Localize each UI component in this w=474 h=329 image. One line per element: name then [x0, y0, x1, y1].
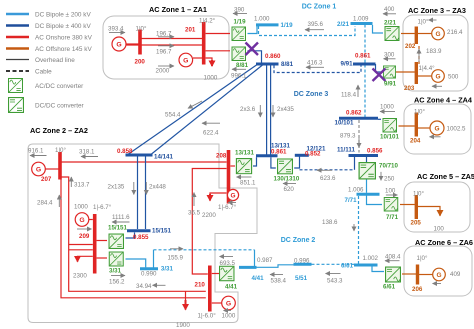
- svg-text:400: 400: [384, 6, 395, 13]
- svg-text:1|0°: 1|0°: [413, 191, 424, 198]
- svg-text:1002.5: 1002.5: [447, 126, 466, 133]
- svg-text:G: G: [435, 74, 440, 81]
- svg-text:2300: 2300: [73, 273, 87, 280]
- svg-text:0.852: 0.852: [305, 150, 321, 157]
- svg-text:G: G: [116, 41, 121, 48]
- svg-text:AC Zone 2 – ZA2: AC Zone 2 – ZA2: [30, 126, 88, 135]
- svg-text:118.4: 118.4: [341, 92, 357, 99]
- svg-text:206: 206: [412, 286, 423, 293]
- svg-text:1000: 1000: [380, 104, 394, 111]
- svg-text:204: 204: [410, 138, 421, 145]
- svg-text:1|-6.7°: 1|-6.7°: [93, 204, 112, 211]
- svg-text:2000: 2000: [156, 68, 170, 75]
- svg-text:201: 201: [185, 27, 196, 34]
- svg-text:1111.6: 1111.6: [112, 214, 130, 221]
- svg-text:100: 100: [385, 188, 396, 195]
- svg-text:2200: 2200: [202, 212, 216, 219]
- svg-text:3/31: 3/31: [161, 266, 174, 273]
- svg-text:7/71: 7/71: [345, 197, 358, 204]
- svg-text:10/101: 10/101: [335, 120, 354, 127]
- svg-text:1|0°: 1|0°: [414, 109, 425, 116]
- svg-text:996.1: 996.1: [231, 73, 247, 80]
- svg-text:0.862: 0.862: [346, 110, 362, 117]
- svg-text:208: 208: [216, 152, 227, 159]
- svg-text:DC Zone 3: DC Zone 3: [294, 91, 329, 98]
- svg-text:8/81: 8/81: [281, 61, 294, 68]
- svg-text:1|0°: 1|0°: [418, 19, 429, 26]
- svg-text:DC Zone 1: DC Zone 1: [302, 4, 337, 11]
- svg-text:1000: 1000: [222, 313, 236, 320]
- svg-text:284.4: 284.4: [37, 200, 53, 207]
- svg-text:196.7: 196.7: [156, 49, 172, 56]
- svg-text:9/91: 9/91: [341, 61, 354, 68]
- svg-text:2/21: 2/21: [337, 21, 350, 28]
- svg-text:205: 205: [411, 220, 422, 227]
- svg-text:916.1: 916.1: [28, 148, 44, 155]
- svg-text:1|-6.7°: 1|-6.7°: [218, 204, 237, 211]
- svg-text:DC Bipole ± 200 kV: DC Bipole ± 200 kV: [35, 12, 91, 19]
- svg-text:1|0°: 1|0°: [417, 255, 428, 262]
- svg-text:0.861: 0.861: [271, 148, 287, 155]
- svg-text:14/141: 14/141: [154, 154, 173, 161]
- svg-text:15/151: 15/151: [152, 228, 171, 235]
- svg-text:8/81: 8/81: [236, 62, 249, 69]
- svg-text:390: 390: [234, 7, 245, 14]
- svg-text:693.5: 693.5: [220, 260, 236, 267]
- svg-text:9/91: 9/91: [384, 81, 397, 88]
- svg-text:0.990: 0.990: [141, 271, 157, 278]
- svg-text:AC Zone 5 – ZA5: AC Zone 5 – ZA5: [417, 172, 474, 181]
- svg-text:313.7: 313.7: [74, 182, 90, 189]
- svg-text:879.3: 879.3: [340, 133, 356, 140]
- svg-text:1|0°: 1|0°: [55, 147, 66, 154]
- svg-text:6/61: 6/61: [341, 263, 354, 270]
- svg-text:318.1: 318.1: [79, 149, 95, 156]
- svg-text:36.5: 36.5: [188, 210, 201, 217]
- svg-text:4/41: 4/41: [252, 275, 265, 282]
- svg-text:409: 409: [450, 271, 461, 278]
- svg-text:2x3.6: 2x3.6: [240, 106, 256, 113]
- svg-text:G: G: [226, 300, 231, 307]
- svg-text:622.4: 622.4: [203, 130, 219, 137]
- svg-text:2x135: 2x135: [108, 184, 125, 191]
- svg-text:7/71: 7/71: [386, 214, 399, 221]
- svg-text:200: 200: [135, 59, 146, 66]
- svg-text:G: G: [435, 31, 440, 38]
- svg-text:1|4.4°: 1|4.4°: [419, 65, 436, 72]
- svg-text:851.1: 851.1: [240, 180, 256, 187]
- svg-text:3/31: 3/31: [109, 268, 122, 275]
- svg-text:G: G: [183, 57, 188, 64]
- svg-text:203: 203: [404, 85, 415, 92]
- svg-text:408.4: 408.4: [385, 254, 401, 261]
- svg-text:5/51: 5/51: [295, 275, 308, 282]
- svg-text:202: 202: [405, 43, 416, 50]
- svg-text:0.987: 0.987: [257, 257, 273, 264]
- svg-text:AC Zone 3 – ZA3: AC Zone 3 – ZA3: [408, 6, 466, 15]
- svg-text:538.4: 538.4: [271, 278, 287, 285]
- svg-text:0.858: 0.858: [117, 148, 133, 155]
- svg-text:34.94: 34.94: [136, 283, 152, 290]
- svg-text:1|4.2°: 1|4.2°: [199, 18, 216, 25]
- svg-text:Overhead line: Overhead line: [35, 57, 75, 64]
- svg-text:6/61: 6/61: [383, 284, 396, 291]
- svg-text:209: 209: [79, 233, 90, 240]
- svg-text:500: 500: [448, 74, 459, 81]
- svg-text:G: G: [79, 217, 84, 224]
- svg-text:DC/DC converter: DC/DC converter: [35, 103, 85, 110]
- svg-text:100: 100: [434, 226, 445, 233]
- svg-text:13/131: 13/131: [235, 149, 254, 156]
- svg-text:155.9: 155.9: [168, 255, 184, 262]
- svg-text:300: 300: [384, 52, 395, 59]
- svg-text:623.6: 623.6: [320, 175, 336, 182]
- svg-text:AC Zone 1 – ZA1: AC Zone 1 – ZA1: [149, 5, 207, 14]
- svg-text:2x448: 2x448: [149, 184, 166, 191]
- svg-text:0.861: 0.861: [355, 53, 371, 60]
- svg-text:210: 210: [195, 282, 206, 289]
- svg-text:DC Zone 2: DC Zone 2: [281, 237, 316, 244]
- svg-text:15/151: 15/151: [108, 225, 127, 232]
- svg-text:0.860: 0.860: [265, 53, 281, 60]
- svg-text:0.856: 0.856: [367, 148, 383, 155]
- svg-text:0.855: 0.855: [133, 234, 149, 241]
- svg-text:1.002: 1.002: [363, 255, 379, 262]
- svg-text:AC Offshore 145 kV: AC Offshore 145 kV: [35, 46, 92, 53]
- svg-text:196.7: 196.7: [156, 31, 172, 38]
- svg-text:1.006: 1.006: [348, 187, 364, 194]
- svg-text:393.4: 393.4: [108, 26, 124, 33]
- svg-text:554.4: 554.4: [165, 112, 181, 119]
- svg-text:G: G: [230, 192, 235, 199]
- svg-text:138.6: 138.6: [322, 219, 338, 226]
- svg-text:DC Bipole ± 400 kV: DC Bipole ± 400 kV: [35, 23, 91, 30]
- svg-text:2x435: 2x435: [277, 106, 294, 113]
- svg-text:2/21: 2/21: [384, 20, 397, 27]
- svg-text:1/19: 1/19: [281, 22, 294, 29]
- svg-text:416.3: 416.3: [307, 60, 323, 67]
- svg-text:1|0°: 1|0°: [136, 26, 147, 33]
- svg-text:G: G: [436, 272, 441, 279]
- svg-text:1|-6.0°: 1|-6.0°: [198, 313, 217, 320]
- svg-text:11/111: 11/111: [337, 147, 355, 154]
- svg-text:250: 250: [384, 176, 395, 183]
- svg-text:1000: 1000: [204, 75, 218, 82]
- svg-text:1900: 1900: [176, 322, 190, 329]
- svg-text:1.009: 1.009: [353, 16, 369, 23]
- svg-text:183.9: 183.9: [426, 48, 442, 55]
- svg-text:Cable: Cable: [35, 69, 52, 76]
- svg-text:0.996: 0.996: [294, 258, 310, 265]
- svg-text:1000: 1000: [74, 204, 88, 211]
- svg-text:620: 620: [284, 186, 295, 193]
- svg-text:AC Zone 4 – ZA4: AC Zone 4 – ZA4: [414, 96, 473, 105]
- svg-text:G: G: [434, 126, 439, 133]
- svg-text:AC Zone 6 – ZA6: AC Zone 6 – ZA6: [415, 238, 473, 247]
- svg-text:G: G: [36, 166, 41, 173]
- svg-text:395.6: 395.6: [308, 21, 324, 28]
- svg-text:543.3: 543.3: [327, 278, 343, 285]
- svg-text:130/1310: 130/1310: [274, 176, 300, 183]
- svg-text:1.000: 1.000: [254, 16, 270, 23]
- svg-text:10/101: 10/101: [380, 134, 399, 141]
- svg-text:207: 207: [41, 176, 52, 183]
- svg-text:156.2: 156.2: [109, 279, 125, 286]
- svg-text:AC/DC converter: AC/DC converter: [35, 83, 84, 90]
- svg-text:4/41: 4/41: [225, 284, 238, 291]
- svg-text:216.4: 216.4: [447, 29, 463, 36]
- svg-text:1/19: 1/19: [234, 19, 247, 26]
- svg-text:AC Onshore 380 kV: AC Onshore 380 kV: [35, 35, 93, 42]
- svg-text:70/710: 70/710: [379, 163, 398, 170]
